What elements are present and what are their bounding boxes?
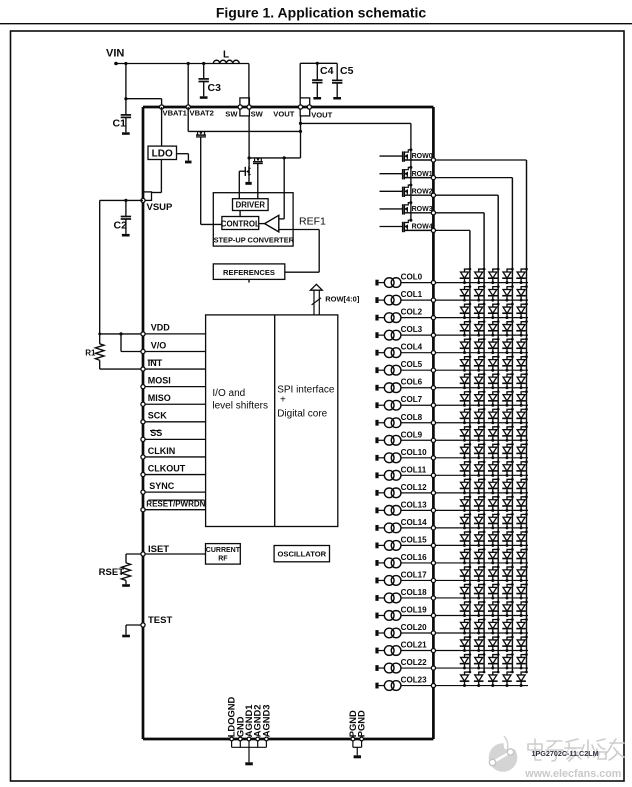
- svg-text:STEP-UP CONVERTER: STEP-UP CONVERTER: [214, 236, 295, 245]
- svg-text:COL1: COL1: [401, 290, 423, 299]
- svg-text:ROW4: ROW4: [412, 224, 433, 231]
- svg-text:SCK: SCK: [148, 411, 168, 421]
- svg-text:SPI interface: SPI interface: [277, 385, 335, 396]
- svg-text:COL17: COL17: [401, 570, 428, 579]
- svg-text:ROW1: ROW1: [412, 171, 433, 178]
- svg-text:VOUT: VOUT: [273, 110, 294, 119]
- svg-text:REF1: REF1: [299, 216, 326, 228]
- svg-text:VDD: VDD: [151, 323, 171, 333]
- svg-text:VBAT1: VBAT1: [163, 109, 188, 118]
- svg-text:level shifters: level shifters: [212, 401, 268, 412]
- svg-text:COL22: COL22: [401, 658, 428, 667]
- svg-text:COL0: COL0: [401, 273, 423, 282]
- svg-text:COL7: COL7: [401, 395, 423, 404]
- svg-text:COL3: COL3: [401, 325, 423, 334]
- svg-text:CLKIN: CLKIN: [148, 446, 176, 456]
- svg-text:COL14: COL14: [401, 518, 428, 527]
- svg-text:C3: C3: [208, 82, 222, 94]
- svg-text:V/O: V/O: [151, 340, 167, 350]
- svg-text:AGND3: AGND3: [260, 704, 271, 737]
- svg-text:Figure 1. Application schemati: Figure 1. Application schematic: [216, 4, 427, 20]
- svg-text:VSUP: VSUP: [147, 202, 174, 213]
- svg-text:RF: RF: [218, 555, 228, 562]
- svg-text:VOUT: VOUT: [311, 111, 332, 120]
- svg-text:C1: C1: [113, 118, 127, 130]
- svg-text:SW: SW: [251, 110, 264, 119]
- svg-text:Digital core: Digital core: [277, 408, 327, 419]
- svg-text:SW: SW: [225, 110, 238, 119]
- svg-text:C2: C2: [114, 220, 128, 232]
- svg-text:COL15: COL15: [401, 535, 428, 544]
- svg-text:ROW0: ROW0: [412, 153, 433, 160]
- svg-text:SYNC: SYNC: [149, 481, 175, 491]
- svg-text:COL20: COL20: [401, 623, 428, 632]
- svg-text:VIN: VIN: [106, 48, 124, 60]
- svg-text:COL16: COL16: [401, 553, 428, 562]
- svg-text:L: L: [223, 50, 229, 61]
- svg-text:MOSI: MOSI: [148, 375, 171, 385]
- svg-text:1PG2702C-11.C2LM: 1PG2702C-11.C2LM: [532, 749, 599, 758]
- svg-text:SS: SS: [150, 428, 162, 438]
- svg-text:ROW[4:0]: ROW[4:0]: [325, 295, 360, 304]
- svg-text:COL12: COL12: [401, 483, 428, 492]
- svg-text:COL6: COL6: [401, 378, 423, 387]
- svg-text:+: +: [280, 395, 286, 406]
- svg-text:ROW2: ROW2: [412, 188, 433, 195]
- svg-text:LDO: LDO: [152, 148, 173, 159]
- svg-text:COL4: COL4: [401, 343, 423, 352]
- svg-text:C4: C4: [320, 65, 334, 77]
- svg-text:INT: INT: [148, 358, 163, 368]
- svg-text:ISET: ISET: [148, 544, 169, 555]
- svg-text:COL8: COL8: [401, 413, 423, 422]
- svg-text:RESET/PWRDN: RESET/PWRDN: [146, 500, 205, 509]
- svg-text:OSCILLATOR: OSCILLATOR: [277, 550, 326, 559]
- svg-text:COL11: COL11: [401, 465, 427, 474]
- svg-text:CLKOUT: CLKOUT: [148, 463, 186, 473]
- svg-text:TEST: TEST: [148, 615, 172, 626]
- svg-text:ROW3: ROW3: [412, 206, 433, 213]
- svg-text:RSET: RSET: [99, 567, 125, 578]
- svg-text:COL2: COL2: [401, 308, 423, 317]
- svg-text:VBAT2: VBAT2: [190, 109, 214, 118]
- svg-text:CURRENT: CURRENT: [206, 547, 241, 554]
- svg-text:MISO: MISO: [148, 393, 171, 403]
- svg-text:DRIVER: DRIVER: [236, 201, 266, 210]
- svg-text:COL19: COL19: [401, 605, 428, 614]
- svg-text:PGND: PGND: [356, 710, 367, 737]
- svg-text:I/O and: I/O and: [212, 388, 245, 399]
- svg-text:COL13: COL13: [401, 500, 428, 509]
- svg-text:C5: C5: [340, 65, 354, 77]
- svg-text:CONTROL: CONTROL: [221, 219, 260, 228]
- svg-text:COL10: COL10: [401, 448, 428, 457]
- svg-text:COL9: COL9: [401, 430, 423, 439]
- svg-text:COL5: COL5: [401, 360, 423, 369]
- svg-text:COL18: COL18: [401, 588, 428, 597]
- svg-text:COL23: COL23: [401, 676, 428, 685]
- svg-text:REFERENCES: REFERENCES: [223, 268, 275, 277]
- svg-text:COL21: COL21: [401, 641, 428, 650]
- svg-text:R1: R1: [85, 349, 96, 358]
- svg-text:www.elecfans.com: www.elecfans.com: [524, 768, 621, 780]
